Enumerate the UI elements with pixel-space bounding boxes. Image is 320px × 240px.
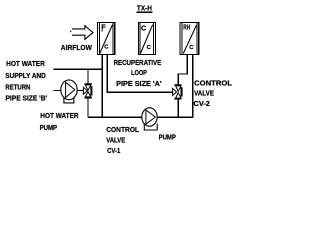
valve CV-2 bottom stem xyxy=(177,99,179,117)
svg-text:SUPPLY AND: SUPPLY AND xyxy=(5,71,46,80)
svg-text:PUMP: PUMP xyxy=(159,133,176,142)
coil F/C (box U1) xyxy=(98,22,115,54)
svg-text:RECUPERATIVE: RECUPERATIVE xyxy=(114,58,162,67)
valve CV-1 bottom stem xyxy=(87,99,89,118)
svg-text:C: C xyxy=(147,45,152,51)
recuperative loop pipe xyxy=(107,91,173,93)
label TX-H xyxy=(137,4,153,13)
supply pipe xyxy=(53,68,102,70)
svg-text:CV-2: CV-2 xyxy=(194,99,210,108)
svg-text:C: C xyxy=(189,45,194,51)
coil RH/C (box U3) xyxy=(180,22,199,54)
svg-text:RH: RH xyxy=(183,25,190,32)
svg-text:CONTROL: CONTROL xyxy=(194,79,232,88)
svg-text:F: F xyxy=(101,22,106,31)
pump P1 xyxy=(61,80,84,103)
svg-text:RETURN: RETURN xyxy=(5,83,30,92)
valve CV-2 (3-way) xyxy=(173,84,183,99)
svg-text:PIPE SIZE 'A': PIPE SIZE 'A' xyxy=(116,79,162,88)
pump P2 xyxy=(142,108,157,130)
svg-text:LOOP: LOOP xyxy=(131,68,147,77)
svg-text:VALVE: VALVE xyxy=(194,89,214,98)
valve CV-1 (3-way) xyxy=(83,83,92,98)
svg-text:TX-H: TX-H xyxy=(137,4,152,13)
bottom pipe right xyxy=(157,116,193,118)
bottom pipe left xyxy=(88,116,142,118)
svg-text:C: C xyxy=(141,23,146,32)
airflow arrow xyxy=(70,26,93,40)
svg-text:HOT WATER: HOT WATER xyxy=(6,59,45,68)
svg-text:C: C xyxy=(104,45,109,51)
svg-text:CONTROL: CONTROL xyxy=(106,125,139,134)
coil C/C (box U2) xyxy=(139,22,156,54)
valve CV-1 top stem xyxy=(87,69,89,83)
coil1 right pipe down xyxy=(106,55,108,93)
svg-text:PIPE SIZE 'B': PIPE SIZE 'B' xyxy=(6,93,48,102)
svg-text:VALVE: VALVE xyxy=(106,135,125,144)
svg-text:HOT WATER: HOT WATER xyxy=(40,111,79,120)
svg-text:CV-1: CV-1 xyxy=(107,146,121,155)
svg-text:AIRFLOW: AIRFLOW xyxy=(61,43,93,52)
return pipe xyxy=(53,90,61,92)
coil1 left pipe down xyxy=(101,55,103,118)
coil3 left pipe to valve CV-2 xyxy=(178,55,188,85)
coil3 right pipe down xyxy=(192,55,194,118)
svg-text:PUMP: PUMP xyxy=(40,123,58,132)
label hot water supply and return xyxy=(5,59,47,102)
